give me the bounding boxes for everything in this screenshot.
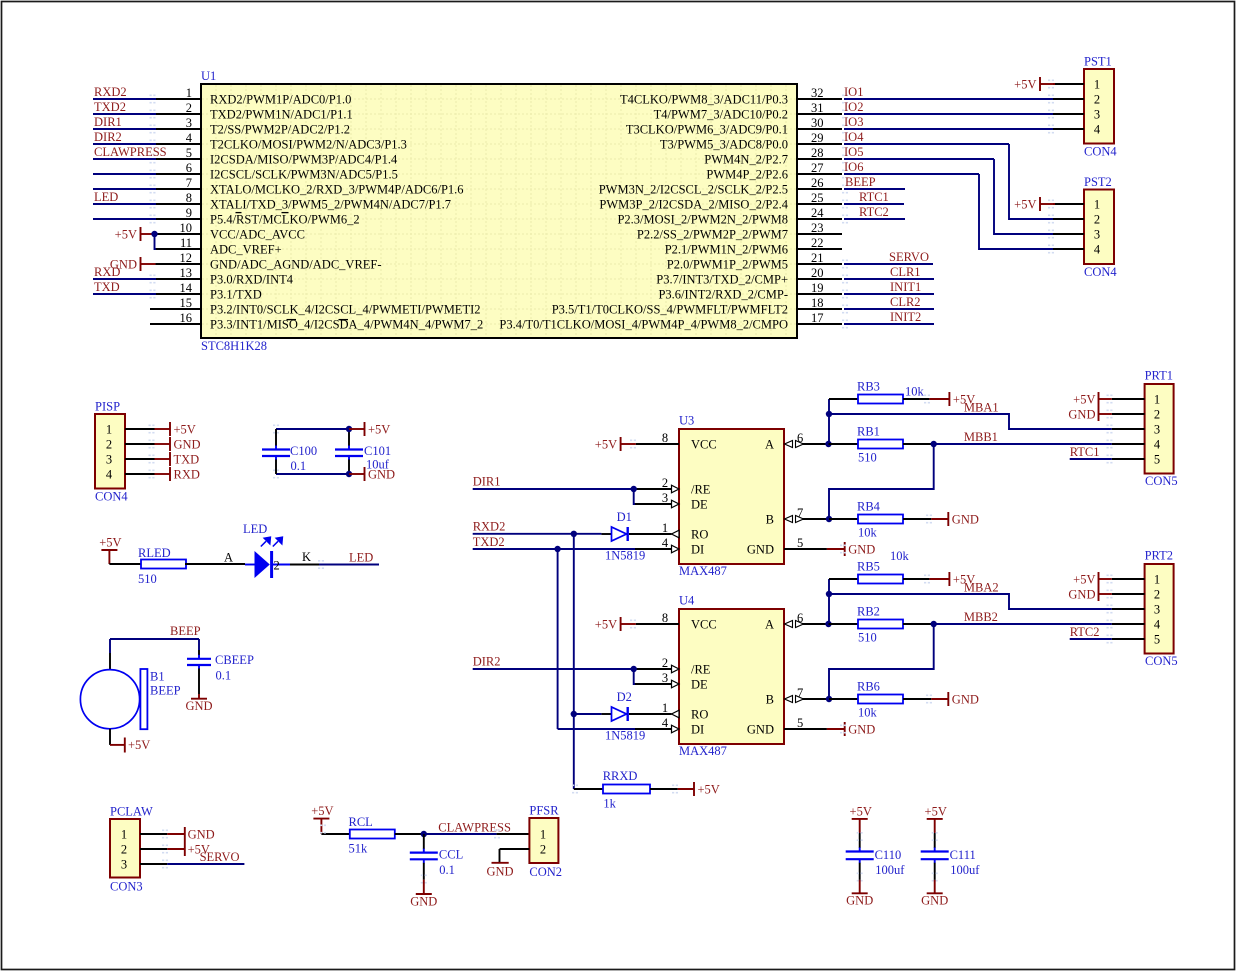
svg-text:GND: GND [1068, 587, 1095, 601]
PCLAW pin 3 [121, 858, 168, 872]
svg-text:GND: GND [952, 512, 979, 526]
svg-text:+5V: +5V [311, 804, 333, 818]
svg-text:RXD2: RXD2 [94, 85, 127, 99]
GND power at C111 [921, 880, 948, 908]
svg-text:P3.2/INT0/SCLK_4/I2CSCL_4/PWME: P3.2/INT0/SCLK_4/I2CSCL_4/PWMETI/PWMETI2 [210, 303, 481, 317]
svg-text:PST2: PST2 [1084, 175, 1112, 189]
junction MBA1 tee [826, 411, 832, 417]
svg-text:TXD2: TXD2 [94, 100, 126, 114]
PRT2 pin 4 [1107, 618, 1161, 632]
svg-text:SERVO: SERVO [889, 250, 929, 264]
svg-text:1N5819: 1N5819 [605, 549, 645, 563]
svg-text:1: 1 [106, 423, 112, 437]
U1 pin 22 [665, 236, 842, 257]
svg-text:RXD2/PWM1P/ADC0/P1.0: RXD2/PWM1P/ADC0/P1.0 [210, 93, 351, 107]
+5V power at PRT2 pin 1 [1073, 572, 1112, 601]
svg-text:4: 4 [1094, 243, 1101, 257]
svg-text:C101: C101 [364, 444, 391, 458]
PST1 pin 2 [1048, 93, 1100, 107]
wire GND rail C100/C101 [273, 470, 349, 479]
svg-text:LED: LED [94, 190, 118, 204]
svg-text:PWM4P_2/P2.6: PWM4P_2/P2.6 [706, 168, 788, 182]
svg-text:T4CLKO/PWM8_3/ADC11/P0.3: T4CLKO/PWM8_3/ADC11/P0.3 [620, 93, 788, 107]
wire IO5 to PST2 pin 3 [994, 159, 1053, 234]
svg-text:PWM4N_2/P2.7: PWM4N_2/P2.7 [704, 153, 788, 167]
svg-text:D2: D2 [617, 690, 632, 704]
wire U1 pin 29 net IO4 [842, 130, 1009, 148]
svg-text:14: 14 [180, 281, 193, 295]
wire U1 pin 9 [93, 215, 156, 224]
GND power at U4 pin 5 [827, 722, 875, 736]
svg-text:3: 3 [1154, 603, 1160, 617]
wire net MBB1 [934, 443, 1112, 445]
svg-text:P2.3/MOSI_2/PWM2N_2/PWM8: P2.3/MOSI_2/PWM2N_2/PWM8 [617, 213, 788, 227]
svg-text:4: 4 [106, 468, 113, 482]
PCLAW pin 2 [121, 843, 168, 857]
svg-text:7: 7 [186, 176, 192, 190]
svg-text:51k: 51k [349, 842, 369, 856]
wire U1 pin 4 [93, 130, 156, 148]
svg-text:CCL: CCL [439, 848, 463, 862]
wire U1 pin 27 net IO6 [842, 160, 979, 178]
GND power at U1 pin 12 [110, 257, 157, 271]
svg-text:PWM3N_2/I2CSCL_2/SCLK_2/P2.5: PWM3N_2/I2CSCL_2/SCLK_2/P2.5 [599, 183, 788, 197]
svg-text:24: 24 [811, 206, 824, 220]
svg-text:+5V: +5V [115, 227, 137, 241]
svg-text:P2.0/PWM1P_2/PWM5: P2.0/PWM1P_2/PWM5 [667, 258, 788, 272]
wire IO4 to PST2 pin 2 [1009, 144, 1053, 219]
svg-text:INIT2: INIT2 [890, 310, 921, 324]
U1 pin 25 [599, 191, 842, 212]
diode D1 1N5819 [601, 527, 634, 541]
wire BEEP top [110, 639, 199, 670]
svg-text:RB4: RB4 [857, 500, 881, 514]
svg-text:8: 8 [662, 611, 668, 625]
wire U1 pin 19 net INIT1 [842, 280, 934, 298]
svg-text:GND: GND [848, 722, 875, 736]
junction MBA2 tee [826, 591, 832, 597]
svg-text:CON4: CON4 [1084, 145, 1117, 159]
svg-text:8: 8 [186, 191, 192, 205]
+5V power at PST2 pin 1 [1014, 197, 1055, 211]
junction C101 bottom [346, 471, 352, 477]
wire RB2 to MBB2 [903, 623, 934, 625]
svg-text:+5V: +5V [128, 738, 150, 752]
svg-text:1: 1 [121, 828, 127, 842]
svg-text:RO: RO [691, 708, 708, 722]
wire SERVO from PCLAW pin 3 [167, 863, 244, 865]
buzzer B1 plate [140, 669, 147, 729]
U1 pin 2 [156, 101, 353, 122]
svg-text:RO: RO [691, 528, 708, 542]
U4 pin 3 DE [634, 671, 708, 692]
capacitor C100 [262, 429, 290, 474]
wire U1 pin 20 net CLR1 [842, 265, 934, 283]
svg-text:DIR1: DIR1 [94, 115, 122, 129]
svg-text:P3.0/RXD/INT4: P3.0/RXD/INT4 [210, 273, 294, 287]
wire IO6 to PST2 pin 4 [979, 174, 1053, 249]
svg-text:T3/PWM5_3/ADC8/P0.0: T3/PWM5_3/ADC8/P0.0 [660, 138, 788, 152]
U1 pin 27 [706, 161, 842, 182]
+5V power at RCL [311, 804, 333, 834]
wire net MBA2 [829, 594, 1112, 609]
svg-text:1: 1 [1154, 393, 1160, 407]
PST1 pin 1 [1048, 78, 1100, 92]
svg-text:+5V: +5V [698, 782, 720, 796]
svg-text:25: 25 [811, 191, 824, 205]
connector PST1 body [1084, 69, 1114, 144]
svg-text:510: 510 [858, 631, 877, 645]
svg-text:P3.6/INT2/RXD_2/CMP-: P3.6/INT2/RXD_2/CMP- [658, 288, 788, 302]
junction MBB2 [931, 621, 937, 627]
svg-text:RTC1: RTC1 [859, 190, 889, 204]
svg-text:11: 11 [180, 236, 192, 250]
svg-text:P3.5/T1/T0CLKO/SS_4/PWMFLT/PWM: P3.5/T1/T0CLKO/SS_4/PWMFLT/PWMFLT2 [552, 303, 788, 317]
svg-text:26: 26 [811, 176, 824, 190]
svg-text:SERVO: SERVO [200, 850, 240, 864]
capacitor C111 [921, 833, 949, 880]
PISP pin 2 [106, 438, 155, 452]
wire RXD2 vertical to D2 [574, 713, 602, 715]
wire U1 pin 17 net INIT2 [842, 310, 934, 328]
svg-text:ADC_VREF+: ADC_VREF+ [210, 243, 282, 257]
U1 pin 5 [156, 146, 398, 167]
PCLAW pin 1 [121, 828, 168, 842]
+5V power at B1 [110, 738, 150, 753]
PRT1 pin 3 [1107, 423, 1161, 437]
svg-text:C110: C110 [875, 848, 902, 862]
U3 pin 4 DI [635, 536, 704, 557]
svg-text:A: A [765, 618, 774, 632]
PST2 pin 1 [1048, 198, 1100, 212]
svg-text:RRXD: RRXD [603, 769, 638, 783]
wire U1 pin 14 [93, 280, 156, 298]
junction B pin [826, 696, 832, 702]
svg-text:CON5: CON5 [1145, 654, 1178, 668]
+5V power at C111 [925, 804, 947, 833]
PST1 pin 3 [1048, 108, 1100, 122]
svg-text:9: 9 [186, 206, 192, 220]
svg-text:RXD: RXD [174, 467, 200, 481]
connector PISP body [95, 414, 125, 489]
junction DIR2/RE/DE U4 [631, 666, 637, 672]
svg-text:GND: GND [848, 542, 875, 556]
svg-text:RXD2: RXD2 [473, 520, 506, 534]
U1 pin 18 [552, 296, 842, 317]
wire DIR2 to U4 [473, 669, 635, 684]
U3 pin 8 VCC [636, 431, 717, 452]
connector PRT1 body [1145, 384, 1174, 474]
wire U1 pin 28 net IO5 [842, 145, 994, 163]
svg-text:1: 1 [662, 701, 668, 715]
U1 pin 21 [667, 251, 842, 272]
svg-text:MAX487: MAX487 [679, 564, 727, 578]
wire RB3 to +5V [903, 398, 929, 400]
svg-text:IO3: IO3 [844, 115, 863, 129]
svg-text:7: 7 [797, 686, 803, 700]
svg-text:2: 2 [274, 559, 280, 573]
wire U1 pin 1 [93, 85, 156, 103]
+5V power at U4 VCC [595, 617, 636, 631]
U1 pin 17 [499, 311, 842, 332]
svg-text:2: 2 [662, 476, 668, 490]
wire MBB1 to B pin [829, 444, 934, 519]
junction C101 top [346, 426, 352, 432]
svg-text:GND/ADC_AGND/ADC_VREF-: GND/ADC_AGND/ADC_VREF- [210, 258, 382, 272]
svg-text:PWM3P_2/I2CSDA_2/MISO_2/P2.4: PWM3P_2/I2CSDA_2/MISO_2/P2.4 [599, 198, 788, 212]
svg-text:5: 5 [1154, 633, 1160, 647]
svg-text:IO6: IO6 [844, 160, 863, 174]
U1 pin 28 [704, 146, 842, 167]
connector PCLAW body [110, 819, 140, 878]
svg-text:0.1: 0.1 [291, 459, 307, 473]
svg-text:+5V: +5V [850, 804, 872, 818]
+5V power at PRT1 pin 1 [1073, 392, 1112, 421]
junction RXD2 vertical [571, 531, 577, 537]
svg-text:C100: C100 [290, 444, 317, 458]
svg-text:+5V: +5V [368, 422, 390, 436]
svg-text:GND: GND [747, 723, 774, 737]
svg-text:IO1: IO1 [844, 85, 863, 99]
svg-text:T2/SS/PWM2P/ADC2/P1.2: T2/SS/PWM2P/ADC2/P1.2 [210, 123, 350, 137]
svg-text:+5V: +5V [925, 804, 947, 818]
PST1 pin 4 [1048, 123, 1101, 137]
U1 pin 13 [156, 266, 294, 287]
svg-text:RB3: RB3 [857, 380, 880, 394]
svg-text:U3: U3 [679, 414, 694, 428]
svg-text:23: 23 [811, 221, 824, 235]
U1 pin 11 [156, 236, 282, 257]
+5V power at U1 VCC pin 10 [115, 227, 157, 241]
wire RTC2 to PRT2 pin 5 [1070, 638, 1112, 640]
wire RCL to junction [395, 833, 424, 835]
svg-text:+5V: +5V [595, 437, 617, 451]
svg-text:4: 4 [1154, 618, 1161, 632]
U1 pin 16 [150, 311, 483, 332]
GND power at C110 [846, 880, 873, 908]
svg-text:I2CSCL/SCLK/PWM3N/ADC5/P1.5: I2CSCL/SCLK/PWM3N/ADC5/P1.5 [210, 168, 398, 182]
svg-text:100uf: 100uf [950, 863, 980, 877]
svg-text:XTALO/MCLKO_2/RXD_3/PWM4P/ADC6: XTALO/MCLKO_2/RXD_3/PWM4P/ADC6/P1.6 [210, 183, 464, 197]
wire +5V rail to C100/C101 [273, 425, 349, 434]
svg-text:16: 16 [180, 311, 193, 325]
wire RB1 to MBB1 [903, 443, 934, 445]
U1 pin 10 [156, 221, 305, 242]
GND power at CCL [410, 880, 437, 909]
svg-text:2: 2 [121, 843, 127, 857]
wire B pin to RB6 [829, 698, 858, 700]
svg-text:DI: DI [691, 723, 704, 737]
svg-text:PRT1: PRT1 [1145, 369, 1173, 383]
U1 pin 19 [658, 281, 842, 302]
svg-text:4: 4 [662, 716, 669, 730]
svg-text:3: 3 [186, 116, 192, 130]
wire RB4 to GND [903, 518, 931, 520]
U1 pin 23 [637, 221, 842, 242]
PST2 pin 4 [1048, 243, 1101, 257]
svg-text:DE: DE [691, 498, 708, 512]
junction DIR1/RE/DE U3 [631, 486, 637, 492]
resistor RRXD [603, 785, 650, 794]
svg-text:CLAWPRESS: CLAWPRESS [438, 821, 511, 835]
svg-text:RB1: RB1 [857, 425, 880, 439]
resistor RB3 [858, 395, 903, 404]
junction MBB1 [931, 441, 937, 447]
svg-text:A: A [765, 438, 774, 452]
svg-text:510: 510 [138, 572, 157, 586]
wire RB6 to GND [903, 698, 931, 700]
svg-text:2: 2 [1154, 408, 1160, 422]
U3 pin 5 GND [747, 536, 827, 557]
connector PFSR body [529, 818, 558, 863]
PISP pin 1 [106, 423, 155, 437]
+5V power at U3 VCC [595, 437, 636, 451]
svg-text:TXD2/PWM1N/ADC1/P1.1: TXD2/PWM1N/ADC1/P1.1 [210, 108, 353, 122]
wire A pin to RB2 [829, 623, 859, 625]
svg-text:PISP: PISP [95, 400, 120, 414]
svg-text:GND: GND [486, 864, 513, 878]
svg-text:1k: 1k [603, 797, 616, 811]
svg-text:2: 2 [1094, 213, 1100, 227]
resistor RB4 [858, 515, 903, 524]
+5V power at C110 [850, 804, 872, 833]
svg-text:A: A [224, 551, 233, 565]
svg-text:22: 22 [811, 236, 824, 250]
svg-text:4: 4 [1094, 123, 1101, 137]
svg-text:1: 1 [662, 521, 668, 535]
svg-text:2: 2 [662, 656, 668, 670]
wire U1 pin 24 net RTC2 [842, 205, 905, 223]
svg-text:LED: LED [349, 551, 373, 565]
power TXD at PISP pin 3 [155, 452, 200, 466]
svg-text:1N5819: 1N5819 [605, 729, 645, 743]
capacitor C101 [335, 429, 363, 474]
svg-text:6: 6 [797, 431, 803, 445]
svg-text:B1: B1 [150, 670, 165, 684]
svg-text:0.1: 0.1 [439, 863, 455, 877]
resistor RB2 [858, 620, 903, 629]
svg-text:2: 2 [1094, 93, 1100, 107]
svg-text:RTC1: RTC1 [1070, 445, 1100, 459]
svg-text:LED: LED [243, 522, 267, 536]
svg-text:4: 4 [1154, 438, 1161, 452]
svg-text:BEEP: BEEP [170, 624, 201, 638]
PRT2 pin 1 [1107, 573, 1161, 587]
U4 pin 2 /RE [634, 656, 711, 677]
GND power at RB6 [926, 692, 979, 706]
wire RXD2 to D1 and down [473, 534, 602, 789]
svg-text:3: 3 [106, 453, 112, 467]
junction at U1 pin 10 [151, 231, 157, 237]
wire A pin to RB1 [829, 443, 859, 445]
connector PST2 body [1084, 190, 1114, 265]
power GND at PISP pin 2 [155, 437, 201, 451]
svg-text:+5V: +5V [595, 617, 617, 631]
svg-text:GND: GND [952, 692, 979, 706]
svg-text:U1: U1 [201, 69, 216, 83]
svg-text:RLED: RLED [138, 546, 171, 560]
wire U1 pin 26 net BEEP [842, 175, 905, 193]
svg-text:MBA2: MBA2 [964, 581, 999, 595]
svg-text:+5V: +5V [1073, 392, 1095, 406]
+5V power at RB3 [924, 392, 975, 406]
svg-text:RCL: RCL [349, 815, 373, 829]
svg-text:2: 2 [106, 438, 112, 452]
svg-text:CLAWPRESS: CLAWPRESS [94, 145, 167, 159]
IC U3 MAX487 body [679, 429, 784, 564]
U1 pin 6 [156, 161, 398, 182]
svg-text:3: 3 [1094, 108, 1100, 122]
svg-text:5: 5 [1154, 453, 1160, 467]
svg-text:RB6: RB6 [857, 680, 880, 694]
wire vertical MBA1 bus [829, 399, 858, 444]
wire U1 pin 30 net IO3 [842, 115, 1053, 133]
svg-text:2: 2 [1154, 588, 1160, 602]
svg-text:DIR2: DIR2 [94, 130, 122, 144]
U1 pin 3 [156, 116, 350, 137]
GND power at PFSR pin 2 [486, 849, 513, 878]
svg-text:RB2: RB2 [857, 605, 880, 619]
wire net MBB2 [934, 623, 1112, 625]
svg-text:27: 27 [811, 161, 824, 175]
U1 pin 12 [156, 251, 382, 272]
svg-text:PRT2: PRT2 [1145, 549, 1173, 563]
U4 pin 7 B [766, 686, 829, 707]
U3 pin 6 A [765, 431, 829, 452]
svg-text:15: 15 [180, 296, 193, 310]
PISP pin 3 [106, 453, 155, 467]
svg-text:31: 31 [811, 101, 824, 115]
svg-text:8: 8 [662, 431, 668, 445]
LED light arrows [261, 537, 283, 546]
junction RB1 left [825, 441, 831, 447]
PST2 pin 3 [1048, 228, 1100, 242]
svg-text:1: 1 [1094, 78, 1100, 92]
wire U1 pin 31 net IO2 [842, 100, 1053, 118]
buzzer B1 circle [80, 670, 139, 729]
wire +5V to U1 pin 11 [155, 234, 157, 249]
junction B pin [826, 516, 832, 522]
svg-text:INIT1: INIT1 [890, 280, 921, 294]
svg-text:BEEP: BEEP [845, 175, 876, 189]
wire U1 pin 8 [93, 190, 156, 208]
svg-text:DIR1: DIR1 [473, 475, 501, 489]
svg-text:3: 3 [121, 858, 127, 872]
svg-text:5: 5 [797, 536, 803, 550]
svg-text:+5V: +5V [174, 422, 196, 436]
wire vertical MBA2 bus [829, 579, 858, 624]
power RXD at PISP pin 4 [155, 467, 200, 481]
svg-text:T3CLKO/PWM6_3/ADC9/P0.1: T3CLKO/PWM6_3/ADC9/P0.1 [626, 123, 788, 137]
+5V power at RLED [99, 536, 121, 565]
LED diode symbol [245, 551, 290, 578]
+5V power at RB5 [924, 572, 975, 586]
wire CLAWPRESS to PFSR [424, 830, 530, 839]
wire U1 pin 6 [93, 170, 156, 179]
PRT1 pin 5 [1107, 453, 1161, 467]
U4 pin 4 DI [635, 716, 704, 737]
wire RXD2 vertical to RRXD [572, 785, 603, 794]
svg-text:1: 1 [540, 828, 546, 842]
capacitor C110 [846, 833, 874, 880]
U1 pin 14 [156, 281, 262, 302]
svg-text:10k: 10k [890, 549, 910, 563]
U3 pin 3 DE [634, 491, 708, 512]
svg-text:4: 4 [662, 536, 669, 550]
svg-text:3: 3 [1154, 423, 1160, 437]
svg-text:VCC: VCC [691, 618, 717, 632]
svg-text:T4/PWM7_3/ADC10/P0.2: T4/PWM7_3/ADC10/P0.2 [654, 108, 788, 122]
